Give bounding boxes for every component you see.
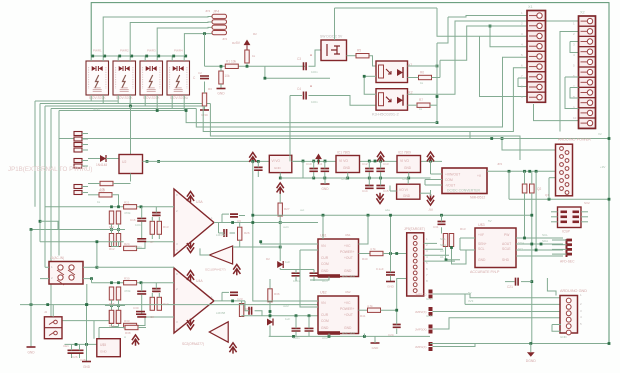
svg-text:1N4148: 1N4148: [96, 163, 107, 167]
wire bus3: [44, 106, 46, 267]
svg-text:JP2: JP2: [497, 162, 503, 166]
resistor R34 pair: [150, 297, 154, 310]
wire dcdc out: [487, 170, 556, 172]
connector X2 cell 4: [579, 47, 596, 57]
resistor R32 pair: [109, 311, 113, 324]
resistor R40: [370, 251, 383, 255]
svg-text:GND: GND: [343, 166, 351, 170]
svg-text:LM358: LM358: [216, 233, 226, 237]
junction: [363, 75, 366, 78]
junction: [185, 109, 188, 112]
wire opto net3: [469, 132, 471, 139]
svg-text:sda: sda: [385, 208, 390, 212]
wire pins box 1: [90, 56, 92, 61]
cap C22: [386, 272, 395, 275]
wire: [137, 317, 174, 326]
junction: [172, 55, 175, 58]
capacitor C29: [292, 328, 301, 331]
wire out1: [214, 222, 245, 224]
svg-text:COM: COM: [321, 319, 329, 323]
wire IC right: [143, 160, 270, 162]
capacitor C17: [137, 239, 146, 242]
wire: [383, 253, 407, 255]
power arrow left2: [132, 335, 139, 346]
power arrow opamp2 up: [187, 271, 194, 282]
resistor R20: [99, 193, 112, 197]
resistor R33h: [124, 323, 137, 327]
diode zener D2: [277, 261, 283, 268]
wire X1 pin2 route: [440, 26, 527, 60]
connector X1 cell 6: [527, 62, 546, 72]
ICSP box: [558, 207, 582, 228]
svg-text:A: A: [310, 53, 312, 57]
svg-text:AC2: AC2: [322, 336, 328, 340]
wire pair bottom: [112, 246, 119, 248]
junction: [269, 310, 272, 313]
svg-text:R1 10k: R1 10k: [226, 60, 237, 64]
wire j1 right a: [83, 266, 97, 268]
capacitor out C33: [249, 307, 252, 315]
svg-text:SHD: SHD: [502, 258, 510, 262]
svg-text:ANL-906: ANL-906: [342, 275, 355, 279]
svg-text:R7: R7: [419, 98, 423, 102]
wire staircase c: [203, 106, 470, 132]
ground u12: [371, 342, 380, 344]
resistor R6: [419, 75, 432, 79]
junction: [90, 277, 93, 280]
label U$2 type: [318, 331, 340, 335]
svg-text:GND: GND: [372, 346, 380, 350]
svg-text:JP2: JP2: [222, 37, 228, 41]
IC box U8: [269, 155, 292, 172]
connector X1 cell 2: [527, 21, 546, 31]
svg-text:A1: A1: [440, 255, 444, 259]
junction: [312, 177, 315, 180]
IC U$1 box: [318, 239, 359, 277]
junction: [608, 198, 611, 201]
svg-text:10k: 10k: [225, 74, 231, 78]
wire u5 gnd: [86, 344, 88, 361]
svg-text:DGND: DGND: [526, 359, 537, 363]
wire sv1 leads: [552, 239, 567, 241]
wire bus stub b: [322, 215, 324, 239]
svg-text:VO VI: VO VI: [399, 188, 408, 192]
svg-text:GND: GND: [321, 269, 329, 273]
wire U$3 right pins: [516, 237, 563, 239]
connector JP4 pin 1: [212, 14, 227, 18]
svg-text:U3A: U3A: [196, 200, 203, 204]
junction: [489, 25, 492, 28]
junction: [279, 177, 282, 180]
wire: [324, 178, 326, 184]
connector X2 cell 11: [579, 118, 596, 128]
svg-text:C8: C8: [150, 315, 154, 319]
optocoupler K1 box: [376, 61, 408, 83]
connector X2 cell 10: [579, 108, 596, 118]
svg-text:Q1: Q1: [545, 193, 549, 197]
capacitor C20: [292, 273, 301, 276]
wire X1 bottom route: [534, 104, 579, 121]
junction: [389, 252, 392, 255]
wire bottom rail: [20, 304, 330, 306]
resistor R8: [100, 181, 113, 185]
svg-text:R40: R40: [362, 257, 368, 261]
wire bottom long: [430, 343, 609, 345]
junction: [231, 300, 234, 303]
cap C13: [376, 169, 385, 172]
svg-text:R17: R17: [163, 302, 169, 306]
regulator IC3 box: [397, 184, 420, 199]
junction: [145, 55, 148, 58]
wire power rail: [292, 160, 442, 162]
wire left branch: [30, 230, 32, 256]
wire route v2: [261, 242, 318, 244]
svg-text:C21: C21: [507, 285, 513, 289]
svg-text:CUR: CUR: [321, 313, 329, 317]
svg-text:U$1: U$1: [345, 233, 351, 237]
power arrow +12V: [377, 152, 384, 163]
junction: [251, 160, 254, 163]
ground GND left: [27, 346, 36, 348]
junction: [146, 160, 149, 163]
svg-text:NMH0512: NMH0512: [470, 196, 485, 200]
wire r35: [241, 301, 243, 304]
wire staircase b: [196, 109, 455, 128]
power arrow opamp1b: [233, 265, 240, 276]
wire X1 pin4 route: [490, 26, 527, 47]
wire c21: [505, 281, 515, 283]
capacitor C26: [137, 291, 146, 294]
resistor R7: [417, 103, 430, 107]
svg-text:SW DC/DC 5V: SW DC/DC 5V: [320, 35, 343, 39]
svg-text:C15: C15: [383, 189, 389, 193]
cap C12: [365, 169, 374, 172]
svg-text:-9V: -9V: [428, 208, 434, 212]
resistor R left-down: [202, 93, 206, 106]
svg-text:K3-H5C0201-2: K3-H5C0201-2: [372, 112, 399, 117]
svg-text:out: out: [300, 208, 304, 212]
wire staircase a: [186, 111, 437, 123]
wire crystal: [524, 171, 526, 184]
wire to gnd: [220, 66, 222, 71]
svg-text:R2: R2: [253, 32, 257, 36]
wire mid pair: [111, 224, 113, 234]
diode zener D3: [267, 319, 273, 326]
connector X1 cell 9: [527, 92, 546, 102]
svg-text:1k: 1k: [97, 200, 101, 204]
svg-text:PW: PW: [504, 233, 510, 237]
svg-text:C14: C14: [362, 189, 368, 193]
wire gnd left: [30, 255, 32, 346]
svg-text:C3: C3: [297, 57, 301, 61]
svg-text:X2: X2: [598, 132, 602, 136]
power arrow +9V: [427, 152, 434, 163]
wire r25: [155, 207, 157, 213]
junction: [251, 221, 254, 224]
wire ag feeds: [552, 324, 561, 326]
svg-text:+OUT: +OUT: [344, 256, 353, 260]
wire: [137, 206, 174, 208]
wire u stubs: [328, 334, 330, 337]
wire c16: [141, 207, 143, 219]
svg-text:C11: C11: [317, 162, 323, 166]
wire v 252: [252, 161, 254, 215]
resistor R5: [356, 54, 369, 58]
wire battery stubs: [102, 101, 104, 104]
svg-text:GND: GND: [387, 285, 395, 289]
optocoupler K2 box: [376, 89, 408, 111]
wire battery bottom 4: [51, 108, 196, 110]
svg-text:C7: C7: [150, 240, 154, 244]
svg-text:10: 10: [573, 116, 577, 120]
svg-text:1k: 1k: [420, 81, 424, 85]
svg-text:R26: R26: [244, 231, 250, 235]
svg-text:GND: GND: [100, 350, 108, 354]
svg-text:GND: GND: [344, 269, 352, 273]
svg-text:GND: GND: [274, 166, 282, 170]
wire R5 to K1: [370, 56, 377, 66]
svg-text:PWR2: PWR2: [120, 49, 129, 53]
crystal Q1: [522, 184, 527, 193]
op-amp U3A triangle: [174, 189, 214, 256]
junction: [264, 77, 267, 80]
resistor R22 pair: [109, 211, 113, 224]
connector X2 body: [579, 16, 596, 129]
svg-text:C30: C30: [133, 306, 139, 310]
junction: [445, 258, 448, 261]
wire opamp1b: [200, 248, 209, 255]
cap fb C19: [230, 214, 238, 217]
svg-text:SDA: SDA: [440, 243, 446, 247]
svg-text:R11: R11: [109, 225, 115, 229]
wire j2: [52, 305, 54, 317]
junction: [118, 55, 121, 58]
svg-text:JMP2(X): JMP2(X): [415, 310, 427, 314]
svg-text:X1: X1: [528, 5, 533, 9]
ground GND: [217, 88, 226, 90]
wire u12 bottom: [269, 335, 430, 337]
wire X1 pin1 route: [448, 16, 527, 18]
svg-text:SEN+: SEN+: [478, 242, 487, 246]
wire r26: [239, 223, 241, 228]
svg-text:IC2 7809: IC2 7809: [398, 151, 411, 155]
power arrow A7: [249, 153, 256, 164]
svg-text:C31: C31: [433, 225, 439, 229]
wire: [88, 158, 100, 160]
connector X2 cell 6: [579, 67, 596, 77]
svg-text:R36: R36: [274, 292, 280, 296]
svg-text:ANL-906: ANL-906: [342, 332, 355, 336]
svg-text:SC2(OPA4277): SC2(OPA4277): [182, 342, 204, 346]
junction: [436, 95, 439, 98]
connector X1 cell 8: [527, 82, 546, 92]
svg-text:JMP4(X): JMP4(X): [415, 345, 427, 349]
svg-text:GND: GND: [404, 166, 412, 170]
svg-text:5V: 5V: [488, 219, 492, 223]
wire u8 gnd: [279, 173, 281, 178]
wire K1 out: [408, 77, 419, 79]
power arrow r27: [277, 183, 284, 194]
svg-text:100n: 100n: [293, 279, 300, 283]
wire j1 right b: [83, 278, 92, 280]
wire X1 pin3 route: [437, 8, 480, 36]
switch S1 box: [321, 40, 347, 61]
svg-text:IC1 7805: IC1 7805: [337, 151, 350, 155]
svg-text:+VC: +VC: [344, 301, 351, 305]
svg-text:GND: GND: [344, 326, 352, 330]
resistor R35: [239, 304, 243, 317]
resistor R31 pair: [109, 287, 113, 300]
junction: [529, 342, 532, 345]
capacitor C16: [137, 218, 146, 221]
wire c22: [390, 215, 392, 272]
cap C21: [516, 278, 519, 286]
svg-text:JP1B(EXTERNAL TO PTHRU): JP1B(EXTERNAL TO PTHRU): [8, 166, 92, 173]
svg-text:J1(AC-IN): J1(AC-IN): [50, 256, 64, 260]
wire c33: [245, 301, 249, 311]
junction: [91, 55, 94, 58]
connector JP4 pin 2: [212, 20, 227, 24]
svg-text:R20: R20: [99, 189, 105, 193]
svg-text:100n: 100n: [135, 223, 142, 227]
junction: [292, 335, 295, 338]
svg-text:C16: C16: [130, 218, 136, 222]
wire fb: [221, 214, 223, 222]
svg-text:GND: GND: [83, 365, 91, 369]
wire battery bottom 3: [45, 105, 203, 107]
svg-text:out1: out1: [283, 225, 289, 229]
connector JP3 pins: [74, 132, 82, 136]
wire c26: [141, 283, 143, 292]
svg-text:C10: C10: [306, 162, 312, 166]
svg-text:SDA: SDA: [542, 239, 548, 243]
power arrow opamp2b: [229, 343, 236, 354]
wire bus stub c: [359, 215, 369, 244]
cap fb2 C28: [230, 292, 238, 295]
svg-text:Q2: Q2: [537, 187, 541, 191]
wire jp4 branch: [204, 34, 206, 67]
wire: [137, 242, 174, 249]
svg-text:GND: GND: [321, 187, 329, 191]
surge arrester box AR1: [86, 61, 109, 95]
junction: [75, 343, 78, 346]
cap C7: [254, 167, 263, 170]
resistor R top: [245, 50, 249, 63]
connector X1 cell 7: [527, 72, 546, 82]
connector X1 cell 5: [527, 51, 546, 61]
svg-text:SV2: SV2: [584, 201, 590, 205]
connector X2 cell 3: [579, 36, 596, 46]
junction: [246, 65, 249, 68]
wire: [88, 183, 100, 185]
svg-text:4.7k: 4.7k: [367, 304, 373, 308]
op-amp U3B triangle: [209, 246, 232, 264]
wire mid link: [265, 65, 305, 67]
ground R9: [200, 109, 209, 111]
wire pair bottom2: [111, 324, 113, 327]
junction battery bus: [129, 105, 132, 108]
wire r38: [113, 327, 125, 329]
wire bus4: [50, 109, 52, 321]
svg-text:C9: C9: [237, 219, 241, 223]
svg-text:100n: 100n: [293, 336, 300, 340]
wire K2 out: [408, 104, 418, 106]
svg-text:X2: X2: [580, 11, 585, 15]
resistor R36: [268, 289, 272, 302]
svg-text:1uF: 1uF: [285, 317, 290, 321]
wire staircase d: [210, 104, 520, 161]
svg-text:U$2: U$2: [345, 290, 351, 294]
wire: [290, 95, 302, 97]
svg-text:U4A: U4A: [196, 279, 203, 283]
jumper JMP3: [429, 325, 433, 329]
svg-text:JP5(TARGET): JP5(TARGET): [404, 227, 425, 231]
wire r36: [269, 279, 271, 289]
svg-text:R33: R33: [124, 319, 130, 323]
connector X1 body: [527, 11, 546, 103]
svg-text:100n: 100n: [311, 100, 318, 104]
svg-text:SCL: SCL: [478, 247, 485, 251]
connector X2 cell 9: [579, 98, 596, 108]
junction: [30, 228, 33, 231]
svg-text:GND: GND: [478, 258, 486, 262]
wire j1 b down: [91, 279, 93, 283]
resistor R41: [368, 308, 381, 312]
wire battery bottom 2: [40, 103, 210, 105]
svg-text:C28: C28: [80, 358, 86, 362]
IC U$5 box: [97, 339, 121, 357]
resistor R13 pair: [443, 234, 447, 247]
wire u1 out: [359, 253, 371, 255]
svg-text:VI VO: VI VO: [339, 159, 348, 163]
svg-text:U$3: U$3: [478, 223, 485, 227]
wire K1 left pin2: [364, 75, 376, 77]
junction: [231, 221, 234, 224]
wire: [381, 279, 407, 311]
junction: [523, 237, 526, 240]
power arrow opamp2 dn: [187, 319, 194, 330]
surge arrester box AR4: [167, 61, 190, 95]
svg-text:R13: R13: [163, 225, 169, 229]
svg-text:0.1uF: 0.1uF: [376, 267, 384, 271]
connector J2 box: [44, 317, 62, 339]
svg-text:GND: GND: [93, 107, 101, 111]
svg-text:VN: VN: [321, 244, 326, 248]
svg-text:R13: R13: [460, 227, 466, 231]
svg-text:COM: COM: [445, 178, 453, 182]
wire: [309, 50, 322, 66]
svg-text:100n: 100n: [135, 245, 142, 249]
wire: [374, 336, 376, 343]
wire caps mid2: [295, 316, 297, 329]
wire j1 left: [45, 266, 49, 268]
wire ce: [65, 343, 109, 345]
wire mid2 bus: [242, 315, 318, 317]
cap C14: [365, 186, 374, 189]
svg-text:C13: C13: [383, 162, 389, 166]
svg-text:POWER+: POWER+: [340, 307, 354, 311]
junction: [279, 246, 282, 249]
wire right mid2: [508, 171, 510, 199]
svg-text:R24: R24: [124, 242, 130, 246]
svg-text:AOUT: AOUT: [502, 242, 511, 246]
connector X1 cell 4: [527, 41, 546, 51]
svg-text:SDA: SDA: [518, 241, 524, 245]
wire pins box 2: [117, 56, 119, 61]
wire r13: [446, 247, 461, 260]
wire u5 feeds: [93, 321, 95, 339]
svg-text:1k: 1k: [252, 54, 256, 58]
